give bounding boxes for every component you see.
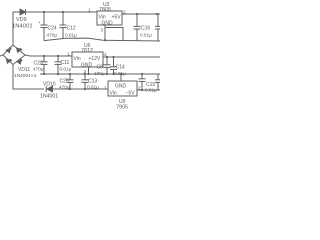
svg-text:470μ: 470μ	[47, 33, 58, 38]
svg-text:GND: GND	[81, 63, 93, 69]
junction C6 / +12V rail	[106, 56, 108, 58]
svg-text:7805: 7805	[99, 7, 111, 13]
svg-text:GND: GND	[102, 21, 114, 27]
svg-text:0.01μ: 0.01μ	[87, 85, 99, 90]
svg-text:100μ: 100μ	[94, 71, 105, 76]
diode VD9	[20, 9, 26, 15]
wire U9 GND pin up to mid ground bus	[120, 74, 122, 81]
wire +5V output rail	[122, 13, 160, 15]
junction C25 / bottom rail	[69, 88, 71, 90]
capacitor C6	[94, 57, 111, 76]
svg-text:0.01μ: 0.01μ	[140, 33, 152, 38]
junction U9 GND / mid ground bus	[120, 73, 122, 75]
svg-text:7812: 7812	[81, 48, 93, 54]
svg-text:VD10: VD10	[43, 82, 56, 88]
svg-text:7905: 7905	[116, 105, 128, 111]
junction C11 / input rail	[57, 55, 59, 57]
capacitor C14	[110, 57, 126, 76]
svg-text:Vin: Vin	[110, 91, 117, 97]
svg-text:−5V: −5V	[126, 91, 136, 97]
junction U3 GND / top ground bus	[104, 39, 106, 41]
capacitor C12	[60, 12, 78, 39]
junction C23 / input rail	[43, 55, 45, 57]
wire top ground bus	[44, 38, 160, 41]
svg-text:+5V: +5V	[112, 15, 122, 21]
capacitor C23	[33, 56, 48, 74]
junction C11 / mid ground bus	[57, 73, 59, 75]
junction C6 / mid ground bus	[106, 73, 108, 75]
regulator U3 7805	[97, 2, 122, 27]
svg-text:470μ: 470μ	[59, 85, 70, 90]
capacitor at right edge (cut off, +5V rail)	[155, 14, 160, 41]
svg-text:C16: C16	[141, 26, 150, 32]
bridge diode VD11d (bottom-right arm)	[17, 59, 22, 64]
svg-text:VD9: VD9	[16, 17, 27, 23]
capacitor C25	[59, 74, 74, 90]
svg-text:1N4001: 1N4001	[40, 94, 58, 100]
wire bridge + output to U6 input	[25, 55, 72, 56]
wire +12V output rail	[103, 56, 160, 58]
capacitor C11	[55, 56, 72, 74]
svg-text:0.01μ: 0.01μ	[145, 88, 157, 93]
svg-text:470μ: 470μ	[33, 67, 44, 72]
svg-text:GND: GND	[115, 84, 127, 90]
svg-text:C24: C24	[48, 26, 57, 32]
svg-text:C11: C11	[61, 60, 70, 66]
bridge rectifier VD11 diamond outline	[3, 45, 25, 65]
bridge diode VD11c (bottom-left arm)	[6, 59, 12, 63]
svg-text:0.01μ: 0.01μ	[65, 33, 77, 38]
junction C14 / +12V rail	[112, 56, 114, 58]
bridge diode VD11b (top-right arm)	[17, 48, 23, 52]
junction C13 / bottom rail	[84, 88, 86, 90]
junction C15 / -5V rail	[141, 89, 143, 91]
regulator U9 7905	[108, 81, 137, 111]
svg-text:Vin: Vin	[74, 56, 81, 62]
svg-text:VD11: VD11	[18, 67, 30, 73]
wire -5V output rail	[137, 89, 160, 91]
svg-text:2: 2	[123, 10, 126, 15]
svg-text:1N4001: 1N4001	[12, 24, 33, 30]
wire stub at bridge left corner (AC input)	[0, 55, 3, 56]
wire U3 GND pin down to top ground bus	[104, 25, 106, 40]
junction C13 / mid ground bus	[84, 73, 86, 75]
regulator U6 7812	[72, 43, 103, 69]
junction C16 / +5V rail	[136, 13, 138, 15]
diode VD10 (cathode to the left)	[46, 86, 52, 92]
junction C14 / mid ground bus	[112, 73, 114, 75]
wire bridge - output down and right along bottom rail	[13, 65, 44, 90]
wire bottom rail from VD10 to U9 input	[53, 88, 108, 90]
junction C24 / top rail	[43, 11, 45, 13]
junction C25 / mid ground bus	[69, 73, 71, 75]
svg-text:C12: C12	[67, 26, 76, 32]
bridge diode VD11a (top-left arm)	[6, 47, 11, 52]
wire U6 GND pin down to mid ground bus	[88, 67, 90, 74]
wire from bridge + (top corner) up and right to VD9 / U3 input	[13, 12, 97, 45]
svg-text:C6: C6	[97, 65, 104, 71]
capacitor C13	[82, 74, 100, 90]
svg-text:2: 2	[138, 86, 141, 91]
svg-text:C14: C14	[116, 65, 125, 71]
svg-text:1N4001×4: 1N4001×4	[14, 73, 37, 79]
capacitor C24	[38, 12, 57, 41]
junction C15 / mid ground bus	[141, 73, 143, 75]
junction U6 GND / mid ground bus	[87, 73, 89, 75]
svg-text:+: +	[38, 20, 41, 25]
svg-text:+12V: +12V	[89, 56, 101, 62]
junction C23 / mid ground bus	[43, 73, 45, 75]
svg-text:1: 1	[104, 86, 107, 91]
wire U3 GND jog to ground bus	[105, 28, 123, 41]
svg-text:0.01μ: 0.01μ	[60, 67, 72, 72]
capacitor C15	[139, 74, 158, 93]
junction C12 / top rail	[62, 11, 64, 13]
capacitor at right edge (cut off, -5V rail)	[155, 74, 160, 90]
junction edge capacitor / +5V rail	[156, 13, 158, 15]
svg-text:3: 3	[101, 28, 104, 33]
wire mid ground bus	[40, 73, 160, 75]
capacitor C16	[134, 14, 153, 41]
